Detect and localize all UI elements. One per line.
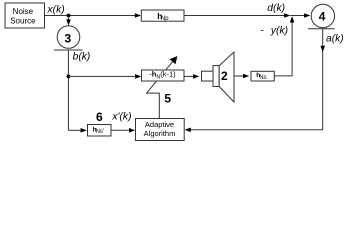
svg-text:x'(k): x'(k) bbox=[111, 111, 131, 122]
svg-text:6: 6 bbox=[96, 110, 103, 124]
svg-text:3: 3 bbox=[65, 32, 72, 46]
svg-text:Source: Source bbox=[10, 16, 36, 25]
svg-text:Algorithm: Algorithm bbox=[144, 129, 176, 138]
svg-text:y(k): y(k) bbox=[270, 26, 288, 37]
svg-text:Adaptive: Adaptive bbox=[145, 120, 174, 129]
svg-text:b(k): b(k) bbox=[73, 52, 91, 63]
svg-text:a(k): a(k) bbox=[326, 34, 344, 45]
svg-text:Ns: Ns bbox=[259, 75, 266, 81]
svg-text:d(k): d(k) bbox=[267, 3, 285, 14]
svg-text:2: 2 bbox=[221, 69, 228, 83]
svg-text:Noise: Noise bbox=[13, 7, 34, 16]
svg-text:5: 5 bbox=[164, 92, 171, 106]
svg-text:Ns': Ns' bbox=[96, 129, 104, 135]
svg-text:Np: Np bbox=[161, 15, 169, 22]
svg-text:x(k): x(k) bbox=[47, 4, 65, 15]
svg-text:4: 4 bbox=[319, 9, 326, 23]
svg-text:-: - bbox=[260, 26, 264, 37]
